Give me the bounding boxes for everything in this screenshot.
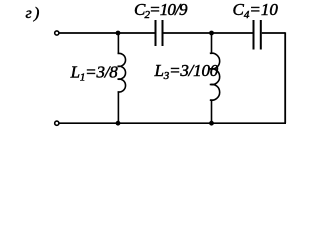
terminal top-left bbox=[55, 31, 59, 35]
wire top: terminal to C2 bbox=[60, 32, 155, 34]
wire bottom bbox=[60, 122, 287, 124]
capacitor C4 plates bbox=[254, 20, 261, 50]
node dot top L3 bbox=[209, 31, 214, 36]
svg-text:г): г) bbox=[26, 5, 42, 22]
svg-text:L1=3/8: L1=3/8 bbox=[70, 63, 119, 84]
wire right vertical bbox=[284, 32, 286, 123]
node dot bottom L1 bbox=[116, 121, 121, 126]
terminal bottom-left bbox=[55, 121, 59, 125]
inductor L1 bbox=[118, 33, 126, 123]
capacitor C2 plates bbox=[156, 20, 163, 46]
inductor L3 bbox=[210, 33, 220, 123]
svg-text:C4=10: C4=10 bbox=[233, 0, 279, 21]
node dot bottom L3 bbox=[209, 121, 214, 126]
node dot top L1 bbox=[116, 31, 121, 36]
wire top: C4 to right corner bbox=[262, 32, 285, 34]
wire top: C2 to C4 bbox=[164, 32, 253, 34]
svg-text:C2=10/9: C2=10/9 bbox=[134, 0, 188, 21]
svg-text:L3=3/100: L3=3/100 bbox=[154, 61, 219, 82]
